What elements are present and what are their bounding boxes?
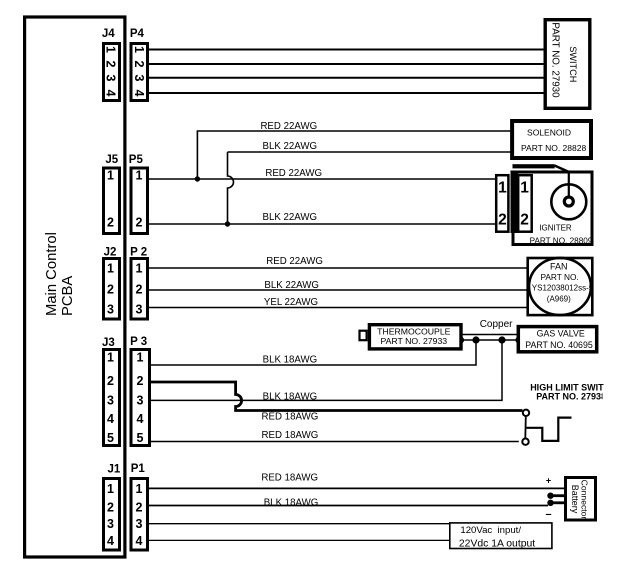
svg-text:1: 1	[107, 351, 114, 365]
svg-text:5: 5	[107, 431, 114, 445]
svg-text:BLK 18AWG: BLK 18AWG	[263, 355, 318, 366]
svg-text:BLK 18AWG: BLK 18AWG	[263, 392, 318, 403]
svg-text:J3: J3	[102, 337, 115, 349]
svg-text:RED 22AWG: RED 22AWG	[260, 121, 317, 132]
svg-text:RED 22AWG: RED 22AWG	[266, 256, 323, 267]
svg-text:IGNITER: IGNITER	[539, 224, 572, 233]
svg-text:FAN: FAN	[550, 262, 568, 272]
svg-text:1: 1	[107, 169, 114, 183]
svg-text:2: 2	[136, 501, 143, 515]
svg-text:3: 3	[136, 303, 143, 317]
svg-text:BLK 18AWG: BLK 18AWG	[264, 498, 319, 509]
svg-text:1: 1	[104, 46, 118, 53]
svg-text:1: 1	[107, 262, 114, 276]
svg-text:1: 1	[136, 262, 143, 276]
svg-text:2: 2	[137, 374, 144, 388]
svg-text:1: 1	[520, 180, 529, 197]
svg-text:2: 2	[520, 212, 529, 229]
svg-text:RED 18AWG: RED 18AWG	[262, 430, 319, 441]
svg-text:PART NO. 40695: PART NO. 40695	[525, 340, 593, 350]
svg-text:4: 4	[136, 534, 143, 548]
svg-text:THERMOCOUPLE: THERMOCOUPLE	[377, 327, 451, 337]
svg-text:2: 2	[107, 501, 114, 515]
svg-text:3: 3	[107, 303, 114, 317]
svg-text:J1: J1	[108, 463, 121, 475]
svg-text:P 2: P 2	[130, 246, 147, 258]
svg-text:2: 2	[107, 374, 114, 388]
svg-text:3: 3	[136, 517, 143, 531]
svg-text:2: 2	[107, 283, 114, 297]
svg-text:J2: J2	[104, 246, 117, 258]
svg-text:RED 18AWG: RED 18AWG	[262, 412, 319, 423]
svg-text:22Vdc 1A output: 22Vdc 1A output	[459, 539, 535, 550]
svg-text:3: 3	[132, 75, 146, 82]
svg-text:P5: P5	[129, 154, 144, 166]
svg-text:GAS VALVE: GAS VALVE	[537, 329, 585, 339]
svg-text:1: 1	[136, 482, 143, 496]
svg-text:4: 4	[104, 90, 118, 97]
svg-text:3: 3	[137, 394, 144, 408]
svg-text:SOLENOID: SOLENOID	[527, 128, 571, 138]
svg-text:2: 2	[132, 61, 146, 68]
svg-text:2: 2	[136, 283, 143, 297]
svg-text:RED 18AWG: RED 18AWG	[261, 473, 318, 484]
svg-text:2: 2	[498, 212, 507, 229]
svg-text:PCBA: PCBA	[60, 276, 76, 316]
svg-text:J5: J5	[105, 154, 118, 166]
svg-text:2: 2	[104, 61, 118, 68]
svg-text:3: 3	[107, 394, 114, 408]
svg-text:4: 4	[137, 412, 144, 426]
svg-text:Copper: Copper	[480, 319, 513, 330]
svg-text:BLK 22AWG: BLK 22AWG	[263, 212, 318, 223]
svg-text:+: +	[546, 476, 551, 486]
svg-text:Battery: Battery	[570, 485, 580, 514]
svg-text:1: 1	[498, 180, 507, 197]
svg-text:P4: P4	[130, 28, 145, 40]
svg-text:YEL 22AWG: YEL 22AWG	[264, 297, 318, 308]
svg-text:Connector: Connector	[580, 480, 590, 520]
svg-text:2: 2	[107, 216, 114, 230]
svg-text:1: 1	[137, 351, 144, 365]
svg-text:P 3: P 3	[130, 336, 147, 348]
svg-text:3: 3	[107, 517, 114, 531]
svg-text:BLK 22AWG: BLK 22AWG	[264, 280, 319, 291]
svg-text:J4: J4	[102, 28, 115, 40]
svg-text:PART NO. 27938: PART NO. 27938	[536, 392, 606, 402]
svg-text:4: 4	[132, 90, 146, 97]
svg-text:YS12038012ss-5: YS12038012ss-5	[532, 284, 594, 293]
svg-text:1: 1	[136, 169, 143, 183]
svg-text:4: 4	[107, 412, 114, 426]
svg-text:1: 1	[132, 46, 146, 53]
svg-text:PART NO. 27933: PART NO. 27933	[380, 336, 447, 346]
svg-text:Main Control: Main Control	[44, 232, 60, 316]
svg-text:RED 22AWG: RED 22AWG	[265, 168, 322, 179]
svg-text:PART NO. 28828: PART NO. 28828	[521, 143, 586, 153]
svg-text:(A969): (A969)	[547, 295, 571, 304]
svg-text:5: 5	[137, 431, 144, 445]
svg-text:4: 4	[107, 534, 114, 548]
svg-text:PART NO. 27930: PART NO. 27930	[549, 22, 560, 98]
svg-text:2: 2	[136, 216, 143, 230]
svg-text:PART NO.: PART NO.	[540, 272, 578, 282]
svg-text:1: 1	[107, 482, 114, 496]
svg-text:P1: P1	[131, 463, 146, 475]
svg-text:120Vac input/: 120Vac input/	[460, 525, 521, 536]
svg-text:BLK 22AWG: BLK 22AWG	[263, 141, 318, 152]
svg-text:3: 3	[104, 75, 118, 82]
svg-text:SWITCH: SWITCH	[568, 46, 578, 82]
svg-text:–: –	[546, 509, 552, 521]
